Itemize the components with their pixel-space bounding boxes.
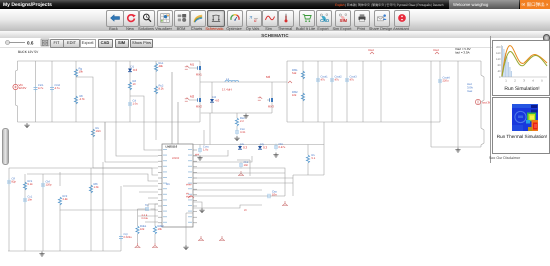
svg-text:47u: 47u: [335, 79, 340, 82]
svg-text:Dy: Dy: [261, 142, 265, 146]
control bar: [0, 38, 550, 48]
wire r5 branch: [102, 162, 104, 251]
wire HB wire down: [171, 72, 173, 144]
schematic header bar: [0, 31, 550, 39]
wire d4 stub: [259, 145, 261, 147]
wire snubber branch: [236, 113, 238, 118]
wire branch fb: [302, 61, 304, 122]
capacitor Cout3: [345, 76, 357, 84]
svg-text:RX1: RX1: [196, 73, 202, 77]
wire en wire: [193, 205, 262, 208]
svg-text:40: 40: [498, 70, 501, 73]
wire rvcc bot: [307, 163, 309, 175]
wire uvlo divider: [155, 61, 157, 140]
svg-text:M1: M1: [190, 62, 194, 66]
ground comp GND: [39, 252, 44, 257]
thermal card: [492, 97, 550, 154]
svg-text:160: 160: [496, 52, 501, 55]
svg-text:#####: #####: [172, 157, 180, 160]
svg-text:10k: 10k: [140, 228, 145, 231]
capacitor Cfbx (inline): [142, 204, 150, 220]
svg-text:RX2: RX2: [196, 105, 202, 109]
ground css gnd (signal): [282, 201, 288, 206]
svg-text:Iout = 3.0A: Iout = 3.0A: [455, 51, 470, 55]
svg-text:220u: 220u: [443, 80, 449, 83]
svg-text:D2: D2: [213, 95, 217, 99]
transistor M1: [190, 62, 202, 76]
wire branch Cin1: [35, 61, 37, 122]
wire output bottom rail: [287, 121, 440, 123]
svg-text:L1: L1: [226, 77, 230, 81]
svg-text:120: 120: [496, 58, 501, 61]
wire fbx feed2: [148, 203, 158, 205]
svg-text:D1: D1: [131, 64, 135, 68]
wire branch plain: [115, 61, 117, 122]
wire rs2 lead: [154, 234, 156, 243]
wire Vout top rail: [287, 60, 481, 62]
svg-text:2.2: 2.2: [240, 120, 244, 123]
wire rvcc stub: [307, 145, 309, 156]
wire pin wire 7: [59, 172, 61, 186]
wire css wire: [193, 195, 268, 197]
wire gate LO to IC: [189, 99, 195, 101]
wire rs1 lead: [137, 234, 139, 243]
wire vcc tap: [130, 96, 158, 150]
svg-text:π: π: [249, 15, 252, 21]
capacitor Cinit: [23, 196, 33, 204]
svg-text:Vout: Vout: [433, 48, 439, 52]
wire M3 top: [271, 82, 273, 96]
wire fb wire 1: [193, 168, 285, 196]
svg-text:10: 10: [133, 83, 136, 86]
svg-text:####: ####: [186, 184, 192, 187]
wire comp rail 1: [9, 168, 158, 175]
ground Rs2 gnd (signal): [152, 243, 158, 248]
gate driver M3 driver: [258, 97, 262, 100]
net label Vout flag2: [433, 48, 439, 54]
wire branch Rvin: [75, 61, 77, 122]
wire cvcc branch: [199, 145, 201, 150]
wire branch out plain: [362, 61, 364, 122]
svg-text:##: ##: [244, 209, 247, 212]
wire comp rail 2: [27, 174, 158, 181]
net label pad: [186, 193, 194, 199]
wire r1 branch: [24, 174, 26, 251]
wire pin wire 10: [148, 197, 158, 199]
capacitor Css: [268, 190, 285, 199]
wire fb wire 3: [193, 177, 293, 179]
wire c2 branch: [42, 174, 44, 251]
capacitor Csnub: [235, 128, 246, 136]
wire agnd feed: [186, 212, 193, 214]
svg-text:0: 0: [499, 76, 501, 79]
wire fb wire 2: [193, 172, 285, 174]
wire fbx top left: [138, 208, 146, 210]
wire LO wire down: [177, 102, 179, 144]
svg-text:4: 4: [532, 79, 534, 83]
svg-text:Run Simulation!: Run Simulation!: [504, 86, 539, 92]
load current source: [475, 99, 491, 104]
wire M3 bot: [271, 104, 273, 113]
wire rsense cont: [92, 122, 94, 146]
svg-text:5: 5: [541, 79, 543, 83]
svg-text:####: ####: [186, 196, 192, 199]
wire pgnd wire: [193, 202, 202, 208]
svg-text:0.6: 0.6: [27, 41, 34, 46]
svg-text:Vout: Vout: [368, 48, 374, 52]
ground PGND2: [199, 208, 204, 213]
language links: [335, 2, 443, 7]
wire vcc rail: [193, 144, 324, 146]
svg-text:10n: 10n: [28, 199, 33, 202]
ground sig gnd 1 (signal): [198, 236, 204, 241]
resistor Ruv2: [154, 85, 164, 94]
resistor Rvcc2: [306, 154, 315, 163]
svg-text:82p: 82p: [12, 181, 17, 184]
svg-text:M3: M3: [266, 75, 270, 79]
svg-text:2: 2: [514, 79, 516, 83]
wire gate HI to IC: [189, 67, 195, 69]
svg-text:1.0u: 1.0u: [203, 149, 209, 152]
net label SW flag: [288, 81, 292, 83]
svg-text:RX3: RX3: [268, 105, 274, 109]
wire c6 top: [120, 186, 122, 196]
svg-text:1.0u: 1.0u: [133, 103, 139, 106]
resistor Ruv1: [154, 62, 164, 71]
resistor Rs1: [136, 225, 147, 234]
wire Vin top rail: [18, 60, 201, 62]
wire sync wire 2: [209, 113, 211, 145]
capacitor Cout1: [316, 76, 328, 84]
wire r3 branch: [59, 210, 61, 251]
capacitor Chf: [41, 181, 52, 189]
wire r4 branch: [90, 168, 92, 251]
resistor Rfb3: [89, 183, 99, 193]
ground AGND: [183, 245, 188, 250]
svg-text:0.022u: 0.022u: [124, 236, 133, 239]
ground Cvcc GND: [197, 156, 202, 161]
diode D4: [258, 142, 268, 150]
wire SW rail: [200, 81, 287, 83]
svg-text:200: 200: [496, 46, 501, 49]
transistor M2: [190, 94, 202, 108]
ground output GND: [455, 148, 460, 153]
wire pin wire 9: [139, 191, 158, 193]
resistor Rfb2: [292, 91, 305, 101]
svg-text:2.4k: 2.4k: [63, 198, 69, 201]
wire branch Cout2: [331, 61, 333, 122]
resistor Rsense: [91, 127, 101, 137]
svg-text:4.7k: 4.7k: [80, 98, 86, 101]
wire branch Cout1: [317, 61, 319, 122]
wire pin wire 8: [123, 185, 158, 187]
svg-text:10k: 10k: [158, 228, 163, 231]
wire pin wire 2: [116, 122, 158, 156]
capacitor Cramp: [119, 233, 132, 241]
svg-text:4.7u: 4.7u: [55, 87, 61, 90]
canvas scrollbar chip: [2, 128, 9, 165]
load symbol outline: [481, 61, 484, 147]
resistor Rcomp2: [58, 195, 68, 205]
ground sync rail GND: [243, 114, 248, 119]
capacitor Cvcc2: [128, 100, 138, 108]
wire boot box right: [249, 160, 251, 176]
wire pin wire 13: [145, 221, 158, 223]
resistor Rg1: [74, 68, 83, 77]
ground Rs1 gnd (signal): [135, 243, 141, 248]
svg-text:47u: 47u: [321, 79, 326, 82]
capacitor Cout4: [438, 77, 450, 85]
wire input bottom rail: [18, 121, 201, 123]
wire M2 source: [199, 104, 201, 122]
wire D2 branch: [211, 82, 213, 99]
capacitor Cff: [7, 178, 16, 186]
svg-text:3: 3: [523, 79, 525, 83]
wire fb wire 6: [193, 156, 252, 162]
wire sync rect rail: [201, 112, 272, 114]
svg-text:12.0V: 12.0V: [19, 86, 27, 90]
svg-text:0.3: 0.3: [263, 146, 268, 150]
svg-text:80: 80: [498, 64, 501, 67]
capacitor Cvcc: [198, 146, 210, 154]
svg-text:0.3: 0.3: [243, 146, 248, 150]
wire fb wire 7: [193, 189, 262, 191]
diode Dvcc: [128, 64, 138, 72]
right panel divider: [490, 36, 491, 163]
capacitor Cin1: [34, 84, 45, 92]
wire branch Cout3: [346, 61, 348, 122]
svg-text:CAD: CAD: [320, 19, 329, 23]
collapse button: [543, 34, 550, 42]
gate driver LO driver: [185, 98, 189, 101]
svg-text:10n: 10n: [244, 164, 249, 167]
svg-text:1.0k: 1.0k: [94, 186, 100, 189]
wire ic gnd bundle: [155, 209, 158, 211]
wire SW node vertical: [199, 72, 201, 96]
svg-text:max: max: [467, 89, 473, 93]
svg-text:Tss: Tss: [145, 204, 150, 207]
wire fb wire 5: [193, 150, 228, 156]
wire cff branch: [8, 168, 10, 251]
capacitor Cout2: [330, 76, 342, 84]
svg-text:10k: 10k: [292, 94, 297, 97]
inductor L1: [222, 77, 239, 92]
wire branch out plain 2: [380, 61, 382, 122]
svg-text:10k: 10k: [79, 71, 84, 74]
svg-text:0.47u: 0.47u: [279, 146, 286, 149]
wire snub mid: [236, 126, 238, 131]
wire M1 drain: [199, 61, 201, 64]
svg-text:5.1: 5.1: [312, 157, 316, 160]
svg-text:0.03u: 0.03u: [142, 217, 149, 220]
ground snubber GND: [234, 136, 239, 141]
wire branch Dvcc: [129, 61, 131, 122]
svg-text:17.4uH: 17.4uH: [222, 88, 232, 92]
ground Cboot GND: [273, 153, 278, 158]
svg-text:M2: M2: [190, 94, 194, 98]
wire c6 branch: [120, 196, 122, 251]
top black title bar: [0, 0, 550, 9]
wire pin wire 3: [105, 122, 158, 162]
wire pin wire 11: [60, 204, 158, 210]
svg-text:5.1k: 5.1k: [28, 183, 34, 186]
wire left bottom rail: [8, 250, 121, 252]
wire fbx left leg: [137, 209, 139, 226]
wire cx stub: [275, 145, 277, 147]
voltage source V1: [13, 83, 26, 90]
svg-text:1: 1: [505, 79, 507, 83]
resistor Rvcc: [128, 80, 136, 90]
transistor M3: [267, 96, 274, 109]
wire d3 stub: [239, 145, 241, 147]
svg-text:###: ###: [195, 154, 200, 157]
net label Vout flag1: [368, 48, 374, 54]
wire load bottom rail: [431, 146, 481, 148]
wire fbx feed: [147, 204, 149, 207]
wire fbx right leg: [154, 209, 156, 226]
svg-text:8.2k: 8.2k: [159, 88, 165, 91]
wire load branch 1: [430, 61, 432, 147]
resistor Rsnub: [235, 117, 245, 126]
svg-text:120p: 120p: [46, 184, 52, 187]
wire fbx top right: [151, 208, 156, 210]
gate driver HI driver: [185, 66, 189, 69]
ground input GND: [24, 123, 29, 128]
toolbar: [0, 9, 550, 33]
op-amp U1 controller IC: [158, 144, 197, 227]
wire nested box: [76, 77, 93, 122]
wire branch Cin2: [51, 61, 53, 122]
svg-text:α: α: [253, 18, 256, 23]
svg-text:10n: 10n: [272, 193, 277, 197]
wire left edge with connector jog: [16, 61, 18, 122]
svg-text:47u: 47u: [350, 79, 355, 82]
resistor Rg2: [74, 95, 85, 104]
svg-text:U1: U1: [166, 182, 170, 186]
resistor Rinit: [23, 180, 33, 190]
wire fb wire 4: [193, 182, 293, 184]
diode D3: [238, 142, 248, 150]
wire rvcc wire: [293, 174, 324, 176]
wire rvcc drop2: [292, 175, 294, 196]
ground Cboot2 gnd (signal): [238, 171, 244, 176]
capacitor Cin2: [50, 84, 61, 92]
wire boot box top: [237, 159, 250, 161]
wire pin wire 12: [138, 215, 158, 217]
svg-text:3.3n: 3.3n: [240, 131, 246, 134]
wire pin wire 4: [93, 146, 158, 168]
svg-text:4.7u: 4.7u: [38, 87, 44, 90]
wire Vout left edge: [286, 61, 288, 122]
wire sync wire 1: [203, 130, 205, 145]
svg-text:Dx: Dx: [241, 142, 245, 146]
wire vcc rail drop: [323, 122, 325, 175]
chat popup orange button: [520, 0, 550, 10]
diode D2: [210, 95, 220, 103]
svg-text:4.0: 4.0: [215, 99, 220, 103]
wire agnd wire: [185, 213, 187, 245]
svg-text:49k: 49k: [159, 65, 164, 68]
svg-text:Run Thermal Simulation!: Run Thermal Simulation!: [497, 134, 547, 139]
svg-text:Iout 3A: Iout 3A: [482, 101, 490, 105]
svg-text:51k: 51k: [292, 72, 297, 75]
svg-text:10m: 10m: [96, 130, 102, 133]
wire branch Cout4: [439, 61, 441, 122]
wire D2 bot: [211, 102, 213, 113]
resistor Rfb1: [292, 69, 305, 79]
wire pin wire 2b: [104, 122, 106, 140]
svg-text:LM25116: LM25116: [166, 145, 178, 149]
svg-text:SIM: SIM: [340, 19, 347, 23]
svg-text:0.3: 0.3: [133, 68, 138, 72]
capacitor Cboot: [274, 143, 286, 151]
ground sig gnd 2 (signal): [219, 236, 225, 241]
schematic drawing: [0, 47, 490, 266]
capacitor Cboot2: [239, 161, 249, 169]
svg-text:BUCK 12V 5V: BUCK 12V 5V: [18, 50, 39, 54]
resistor Rs2: [153, 225, 164, 234]
simulation card: [492, 40, 550, 96]
wire load branch 2: [457, 61, 459, 147]
